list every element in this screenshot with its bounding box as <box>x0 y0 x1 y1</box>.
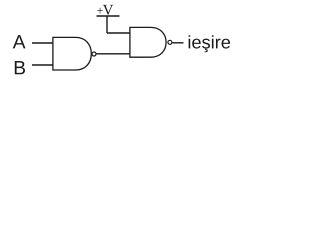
wire U2 output <box>172 42 183 44</box>
wire input B <box>32 64 53 66</box>
input label B <box>15 61 25 74</box>
NAND gate U2 <box>130 27 166 57</box>
wire U1 output to U2 input <box>96 53 130 55</box>
wire U2 top input <box>107 32 130 34</box>
output label ieşire <box>189 35 191 48</box>
output bubble U1 <box>92 52 96 56</box>
input label A <box>13 35 26 48</box>
wire +V drop <box>106 16 108 33</box>
output bubble U2 <box>168 40 172 44</box>
label + of +V <box>97 8 103 14</box>
label V of +V <box>103 5 113 15</box>
NAND gate U1 <box>53 37 91 70</box>
wire input A <box>32 42 53 44</box>
power rail +V <box>97 15 120 17</box>
